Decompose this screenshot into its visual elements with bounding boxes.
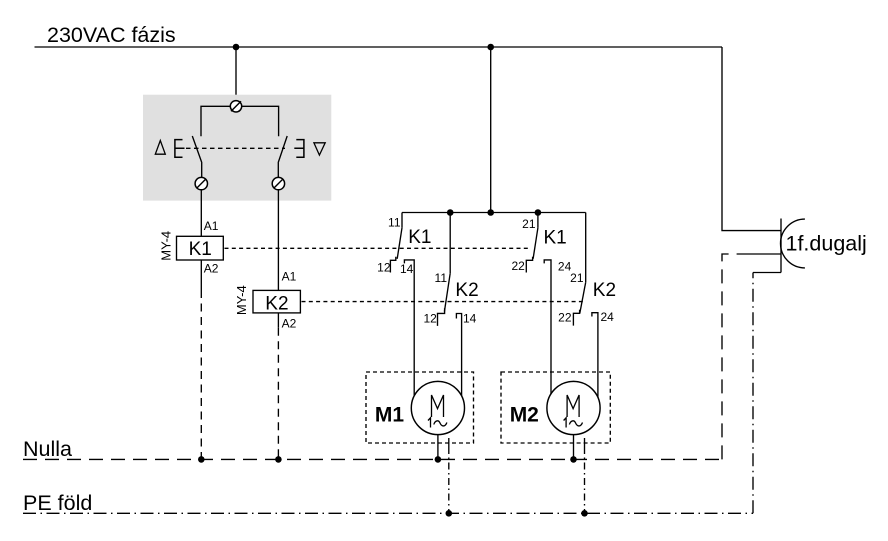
contact K2 pins 11-12-14 — [438, 213, 462, 403]
wire 230VAC phase bus — [35, 46, 723, 48]
switch S1 right terminal — [272, 177, 284, 189]
wire motor M2 PE drop (dash-dot) — [584, 447, 586, 513]
wire switch right terminal to coil K2 — [277, 190, 279, 291]
switch S1 right blade — [278, 136, 287, 177]
motor M1 enclosure (dashed) — [366, 372, 474, 443]
wire switch mechanical link (dashed) — [186, 147, 285, 149]
switch down-arrow symbol — [314, 143, 325, 155]
svg-text:12: 12 — [423, 311, 437, 325]
svg-text:14: 14 — [463, 311, 477, 325]
node PE-M2 junction — [581, 510, 588, 517]
svg-text:M1: M1 — [375, 404, 404, 427]
switch up-arrow symbol — [155, 141, 165, 155]
wire motor M2 to Nulla — [573, 435, 575, 460]
svg-text:A1: A1 — [282, 270, 297, 284]
svg-text:K1: K1 — [544, 228, 567, 249]
node contact bus to K1 right — [535, 209, 542, 216]
wire drop from phase bus to switch — [235, 47, 237, 101]
wire motor M1 PE tail — [448, 438, 450, 447]
node phase tap to contact bus — [487, 44, 494, 51]
switch S1 left terminal — [195, 177, 207, 189]
node Nulla-M1 junction — [435, 456, 442, 463]
motor M2 1~ mark — [564, 418, 583, 428]
wire K1 mechanical link (dashed) — [225, 247, 529, 249]
wire K2 mechanical link (dashed) — [302, 301, 583, 303]
motor M1 letter M — [432, 395, 444, 417]
wire PE into socket — [753, 272, 781, 274]
svg-text:MY-4: MY-4 — [234, 285, 249, 315]
svg-text:11: 11 — [388, 216, 401, 230]
wire coil K2 to Nulla (dashed) — [277, 328, 279, 460]
motor M2 letter M — [567, 395, 579, 417]
socket X1 1f.dugalj — [781, 219, 805, 273]
svg-text:MY-4: MY-4 — [159, 231, 174, 261]
node Nulla-K2 junction — [275, 456, 282, 463]
svg-text:11: 11 — [435, 271, 448, 285]
node PE-M1 junction — [446, 510, 453, 517]
switch actuator right bracket — [294, 140, 304, 158]
svg-text:24: 24 — [601, 310, 615, 324]
wire phase right riser — [722, 47, 781, 231]
svg-text:230VAC fázis: 230VAC fázis — [47, 23, 176, 47]
svg-text:12: 12 — [377, 261, 391, 275]
wire neutral riser to socket (dashed) — [722, 254, 748, 459]
switch S1 enclosure — [143, 95, 331, 201]
motor M2 enclosure (dashed) — [501, 372, 610, 443]
wire neutral into socket — [748, 253, 781, 255]
wire motor M1 PE drop (dash-dot) — [448, 447, 450, 513]
contact K1 pins 11-12-14 — [390, 213, 414, 401]
svg-text:22: 22 — [511, 259, 525, 273]
svg-text:Nulla: Nulla — [23, 437, 72, 461]
relay coil K2 — [253, 290, 300, 313]
svg-text:M2: M2 — [510, 404, 539, 427]
motor M1 1~ mark — [428, 418, 447, 428]
svg-text:K2: K2 — [593, 280, 616, 301]
wire contact supply bus — [402, 212, 586, 214]
svg-text:A1: A1 — [204, 219, 219, 233]
wire Nulla rail (dashed) — [23, 458, 722, 460]
svg-text:21: 21 — [522, 217, 536, 231]
wire switch left terminal to coil K1 — [200, 190, 202, 237]
contact K1 pins 21-22-24 — [526, 213, 551, 401]
wire motor M2 PE tail — [584, 438, 586, 447]
node phase tap to switch — [233, 44, 240, 51]
node Nulla-M2 junction — [570, 456, 577, 463]
wire drop from phase bus to contact bus — [490, 47, 492, 213]
wire PE riser to socket (dash-dot) — [752, 273, 754, 514]
svg-text:1f.dugalj: 1f.dugalj — [786, 231, 867, 255]
svg-text:K2: K2 — [265, 294, 288, 315]
switch actuator left bracket — [175, 140, 185, 158]
svg-text:K1: K1 — [189, 239, 212, 260]
wire switch common bracket — [201, 106, 279, 136]
contact K2 pins 21-22-24 — [573, 213, 598, 403]
node contact bus to K2 left — [447, 209, 454, 216]
motor M2 circle — [547, 381, 600, 434]
wire PE rail (dash-dot) — [23, 512, 753, 514]
svg-text:PE föld: PE föld — [23, 491, 92, 515]
svg-text:A2: A2 — [282, 317, 297, 331]
svg-text:21: 21 — [570, 271, 584, 285]
wire motor M1 to Nulla — [437, 435, 439, 460]
svg-text:22: 22 — [558, 311, 572, 325]
node contact bus center — [487, 209, 494, 216]
wire coil K1 A2 lead — [200, 260, 202, 290]
wire coil K2 A2 lead — [277, 313, 279, 328]
wire coil K1 to Nulla (dashed) — [200, 290, 202, 459]
svg-text:A2: A2 — [204, 261, 219, 275]
node Nulla-K1 junction — [198, 456, 205, 463]
relay coil K1 — [177, 236, 224, 260]
motor M1 circle — [411, 381, 464, 434]
switch S1 common terminal — [230, 101, 241, 112]
svg-text:K1: K1 — [408, 227, 431, 248]
svg-text:14: 14 — [400, 262, 414, 276]
switch S1 left blade — [192, 136, 202, 177]
svg-text:K2: K2 — [455, 280, 478, 301]
